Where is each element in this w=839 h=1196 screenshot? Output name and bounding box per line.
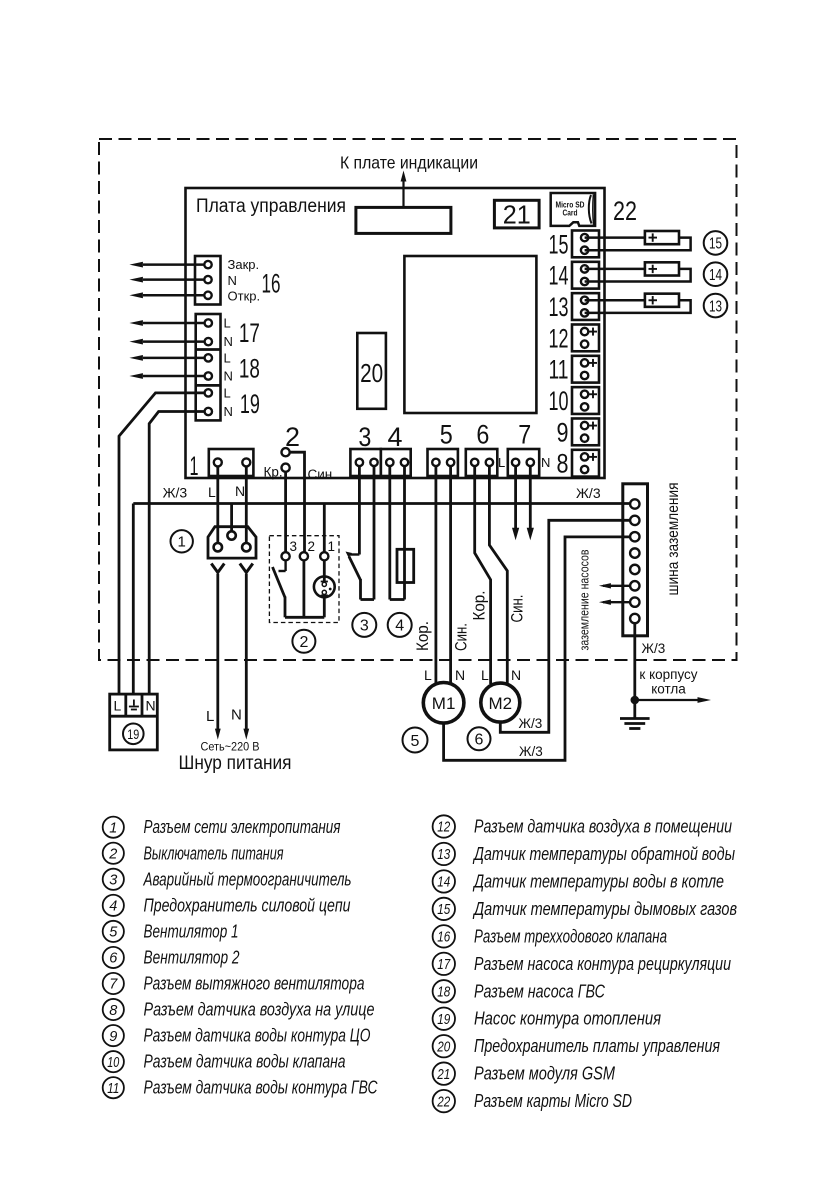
svg-text:17: 17 (239, 318, 260, 348)
svg-text:16: 16 (262, 269, 281, 299)
svg-text:11: 11 (549, 355, 569, 385)
svg-text:Card: Card (563, 208, 578, 218)
svg-text:7: 7 (518, 420, 531, 450)
svg-text:5: 5 (411, 733, 420, 750)
svg-text:N: N (235, 483, 245, 499)
svg-text:Ж/3: Ж/3 (519, 716, 543, 731)
svg-text:Выключатель питания: Выключатель питания (144, 843, 284, 863)
svg-text:L: L (224, 385, 231, 400)
svg-text:Разъем датчика воды контура ЦО: Разъем датчика воды контура ЦО (144, 1026, 371, 1046)
svg-text:Разъем датчика воды клапана: Разъем датчика воды клапана (144, 1052, 346, 1072)
svg-text:19: 19 (437, 1012, 450, 1028)
svg-text:Разъем модуля GSM: Разъем модуля GSM (474, 1064, 615, 1084)
svg-text:Плата управления: Плата управления (196, 196, 346, 217)
svg-text:20: 20 (436, 1039, 450, 1055)
svg-text:Ж/3: Ж/3 (642, 641, 666, 656)
svg-text:12: 12 (549, 323, 569, 353)
svg-text:19: 19 (127, 726, 139, 742)
svg-text:Разъем карты Micro SD: Разъем карты Micro SD (474, 1091, 632, 1111)
svg-text:14: 14 (437, 875, 450, 891)
svg-text:15: 15 (549, 229, 569, 259)
svg-text:12: 12 (437, 820, 450, 836)
svg-text:Разъем насоса ГВС: Разъем насоса ГВС (474, 981, 606, 1001)
svg-text:21: 21 (436, 1067, 450, 1083)
svg-text:N: N (224, 334, 233, 349)
svg-text:Вентилятор 1: Вентилятор 1 (144, 921, 239, 941)
svg-text:N: N (228, 273, 237, 288)
svg-text:22: 22 (436, 1094, 450, 1110)
svg-text:L: L (208, 484, 216, 500)
svg-text:6: 6 (109, 951, 118, 967)
svg-text:Разъем вытяжного вентилятора: Разъем вытяжного вентилятора (144, 974, 365, 994)
svg-text:1: 1 (328, 539, 336, 554)
svg-text:14: 14 (709, 267, 722, 284)
svg-text:заземление насосов: заземление насосов (577, 549, 592, 650)
svg-text:Ж/3: Ж/3 (163, 485, 188, 501)
svg-text:10: 10 (107, 1055, 119, 1071)
svg-text:Разъем трехходового клапана: Разъем трехходового клапана (474, 926, 667, 946)
svg-text:N: N (231, 707, 242, 724)
svg-text:N: N (541, 455, 550, 470)
svg-text:5: 5 (109, 925, 118, 941)
svg-text:Кор.: Кор. (413, 621, 432, 651)
svg-text:16: 16 (437, 930, 451, 946)
svg-text:шина заземления: шина заземления (665, 483, 682, 596)
svg-text:L: L (224, 350, 231, 365)
svg-text:котла: котла (651, 682, 686, 697)
svg-text:L: L (206, 708, 214, 725)
svg-text:2: 2 (299, 634, 308, 651)
svg-text:Вентилятор 2: Вентилятор 2 (144, 947, 240, 967)
svg-text:11: 11 (107, 1081, 119, 1097)
svg-text:N: N (146, 698, 156, 714)
svg-text:M1: M1 (432, 694, 456, 713)
svg-text:Син.: Син. (452, 623, 471, 651)
svg-text:L: L (498, 455, 505, 470)
svg-text:4: 4 (395, 618, 404, 635)
svg-text:6: 6 (476, 420, 489, 450)
svg-text:Син.: Син. (308, 467, 337, 482)
svg-text:13: 13 (437, 847, 450, 863)
svg-text:Разъем датчика воздуха в помещ: Разъем датчика воздуха в помещении (474, 817, 732, 837)
svg-text:3: 3 (360, 618, 369, 635)
svg-text:к корпусу: к корпусу (639, 667, 697, 682)
svg-text:Датчик температуры воды в котл: Датчик температуры воды в котле (472, 871, 724, 891)
svg-text:N: N (224, 404, 233, 419)
svg-text:8: 8 (557, 449, 569, 479)
svg-text:Разъем насоса контура рециркул: Разъем насоса контура рециркуляции (474, 954, 731, 974)
svg-text:9: 9 (557, 417, 569, 447)
svg-text:L: L (224, 316, 231, 331)
svg-text:Кор.: Кор. (470, 591, 489, 621)
svg-text:Ж/3: Ж/3 (519, 744, 543, 759)
svg-text:1: 1 (178, 534, 186, 551)
svg-text:Аварийный термоограничитель: Аварийный термоограничитель (143, 869, 352, 889)
svg-text:Датчик температуры обратной во: Датчик температуры обратной воды (472, 844, 735, 864)
svg-text:5: 5 (440, 420, 453, 450)
svg-text:Датчик температуры дымовых газ: Датчик температуры дымовых газов (472, 899, 737, 919)
svg-text:6: 6 (475, 732, 484, 749)
svg-text:Насос контура отопления: Насос контура отопления (474, 1009, 661, 1029)
svg-text:17: 17 (437, 957, 451, 973)
svg-text:N: N (455, 667, 465, 683)
svg-text:9: 9 (109, 1029, 117, 1045)
svg-text:К плате индикации: К плате индикации (340, 153, 478, 173)
svg-text:13: 13 (709, 298, 722, 315)
svg-text:13: 13 (549, 292, 569, 322)
svg-text:3: 3 (290, 539, 298, 554)
svg-text:15: 15 (709, 236, 722, 253)
svg-text:20: 20 (360, 358, 383, 388)
svg-text:15: 15 (437, 902, 451, 918)
svg-text:2: 2 (308, 539, 316, 554)
svg-text:21: 21 (503, 200, 531, 230)
svg-text:1: 1 (109, 820, 117, 836)
svg-text:3: 3 (109, 873, 117, 889)
svg-text:L: L (481, 667, 489, 683)
svg-text:10: 10 (549, 386, 569, 416)
svg-text:1: 1 (190, 451, 199, 481)
svg-text:Ж/3: Ж/3 (576, 485, 601, 501)
svg-text:14: 14 (549, 261, 569, 291)
svg-text:19: 19 (240, 389, 260, 419)
svg-text:M2: M2 (488, 694, 512, 713)
svg-text:Предохранитель силовой цепи: Предохранитель силовой цепи (144, 895, 351, 915)
svg-text:Разъем датчика воздуха на улиц: Разъем датчика воздуха на улице (144, 1000, 375, 1020)
svg-text:N: N (224, 369, 233, 384)
svg-text:8: 8 (109, 1003, 117, 1019)
svg-text:22: 22 (613, 196, 637, 226)
svg-text:7: 7 (109, 977, 118, 993)
svg-text:Разъем датчика воды контура ГВ: Разъем датчика воды контура ГВС (144, 1078, 379, 1098)
svg-text:2: 2 (108, 846, 117, 862)
svg-text:18: 18 (239, 354, 260, 384)
svg-text:4: 4 (109, 899, 117, 915)
svg-text:Предохранитель платы управлени: Предохранитель платы управления (474, 1036, 720, 1056)
svg-text:Разъем сети электропитания: Разъем сети электропитания (144, 817, 341, 837)
svg-text:L: L (424, 667, 432, 683)
svg-text:3: 3 (358, 422, 371, 452)
svg-text:Кр.: Кр. (264, 465, 283, 480)
svg-text:N: N (511, 667, 521, 683)
svg-text:Син.: Син. (508, 595, 527, 623)
svg-text:Шнур питания: Шнур питания (179, 753, 292, 774)
svg-text:Сеть~220 В: Сеть~220 В (201, 740, 260, 754)
svg-text:Закр.: Закр. (228, 257, 260, 272)
svg-text:Откр.: Откр. (228, 289, 261, 304)
svg-text:18: 18 (437, 984, 450, 1000)
svg-text:4: 4 (388, 422, 403, 452)
svg-text:L: L (114, 698, 122, 714)
